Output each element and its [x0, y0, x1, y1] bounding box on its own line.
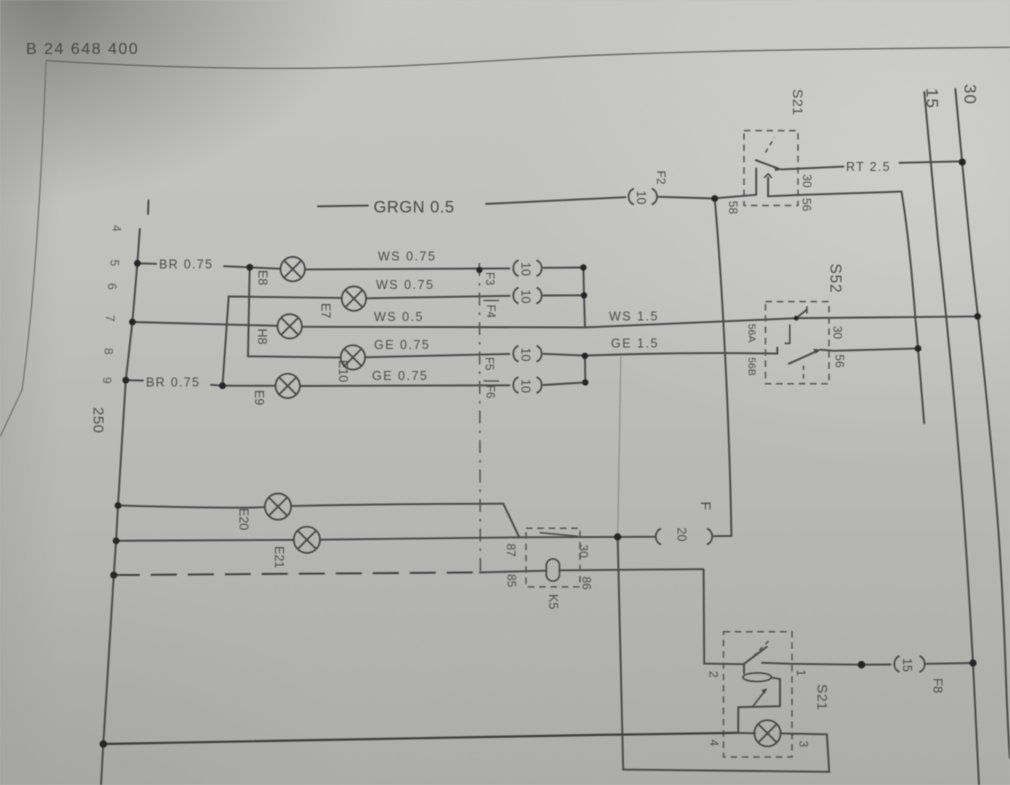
svg-text:30: 30 — [577, 545, 591, 559]
svg-text:15: 15 — [900, 658, 914, 672]
svg-text:85: 85 — [505, 574, 519, 588]
svg-text:F: F — [698, 502, 714, 511]
svg-text:H8: H8 — [255, 329, 269, 345]
svg-text:E21: E21 — [272, 546, 286, 568]
svg-text:6: 6 — [105, 283, 119, 290]
svg-text:10: 10 — [519, 290, 533, 304]
svg-text:56A: 56A — [746, 324, 758, 343]
svg-text:4: 4 — [110, 225, 124, 232]
svg-text:S52: S52 — [827, 264, 844, 294]
svg-text:30: 30 — [961, 84, 980, 105]
svg-text:BR 0.75: BR 0.75 — [146, 376, 200, 390]
svg-text:7: 7 — [103, 315, 117, 322]
svg-text:58: 58 — [726, 201, 740, 215]
svg-text:5: 5 — [108, 260, 122, 267]
svg-text:9: 9 — [100, 377, 114, 384]
svg-text:F5: F5 — [483, 357, 495, 370]
svg-text:RT 2.5: RT 2.5 — [846, 160, 891, 174]
svg-text:WS 0.5: WS 0.5 — [374, 310, 424, 324]
svg-text:56B: 56B — [746, 357, 758, 376]
svg-text:E9: E9 — [252, 390, 266, 405]
svg-text:GE 0.75: GE 0.75 — [374, 338, 430, 352]
svg-text:E20: E20 — [237, 508, 251, 530]
svg-text:WS 0.75: WS 0.75 — [376, 278, 434, 292]
svg-text:WS 1.5: WS 1.5 — [609, 310, 659, 324]
svg-text:S21: S21 — [815, 684, 831, 710]
svg-text:WS 0.75: WS 0.75 — [378, 250, 436, 264]
svg-text:30: 30 — [800, 174, 814, 188]
svg-text:F6: F6 — [484, 385, 496, 398]
svg-text:E7: E7 — [319, 303, 333, 318]
svg-text:56: 56 — [799, 198, 813, 212]
svg-text:3: 3 — [797, 741, 811, 748]
svg-text:GE 1.5: GE 1.5 — [611, 337, 659, 351]
svg-text:30: 30 — [831, 326, 845, 340]
svg-text:B 24 648 400: B 24 648 400 — [26, 41, 139, 58]
svg-text:4: 4 — [707, 740, 721, 747]
svg-text:F4: F4 — [484, 305, 496, 319]
svg-text:F8: F8 — [931, 678, 946, 693]
svg-text:10: 10 — [519, 379, 533, 393]
svg-text:10: 10 — [519, 262, 533, 276]
svg-text:86: 86 — [580, 577, 594, 591]
svg-text:2: 2 — [707, 671, 721, 678]
svg-text:250: 250 — [90, 407, 107, 434]
svg-text:20: 20 — [675, 528, 689, 542]
svg-text:10: 10 — [634, 191, 648, 205]
svg-text:E8: E8 — [256, 270, 270, 285]
svg-text:15: 15 — [923, 88, 942, 109]
svg-text:87: 87 — [504, 544, 518, 558]
svg-text:K5: K5 — [546, 594, 560, 609]
svg-text:BR 0.75: BR 0.75 — [159, 258, 213, 272]
svg-text:F2: F2 — [654, 171, 668, 185]
svg-text:8: 8 — [102, 348, 116, 355]
svg-text:1: 1 — [794, 670, 808, 677]
svg-text:56: 56 — [833, 354, 847, 368]
svg-text:S21: S21 — [790, 89, 806, 115]
svg-text:GRGN 0.5: GRGN 0.5 — [374, 199, 455, 217]
svg-text:GE 0.75: GE 0.75 — [372, 369, 428, 383]
svg-text:10: 10 — [519, 348, 533, 362]
svg-text:F3: F3 — [483, 272, 495, 285]
